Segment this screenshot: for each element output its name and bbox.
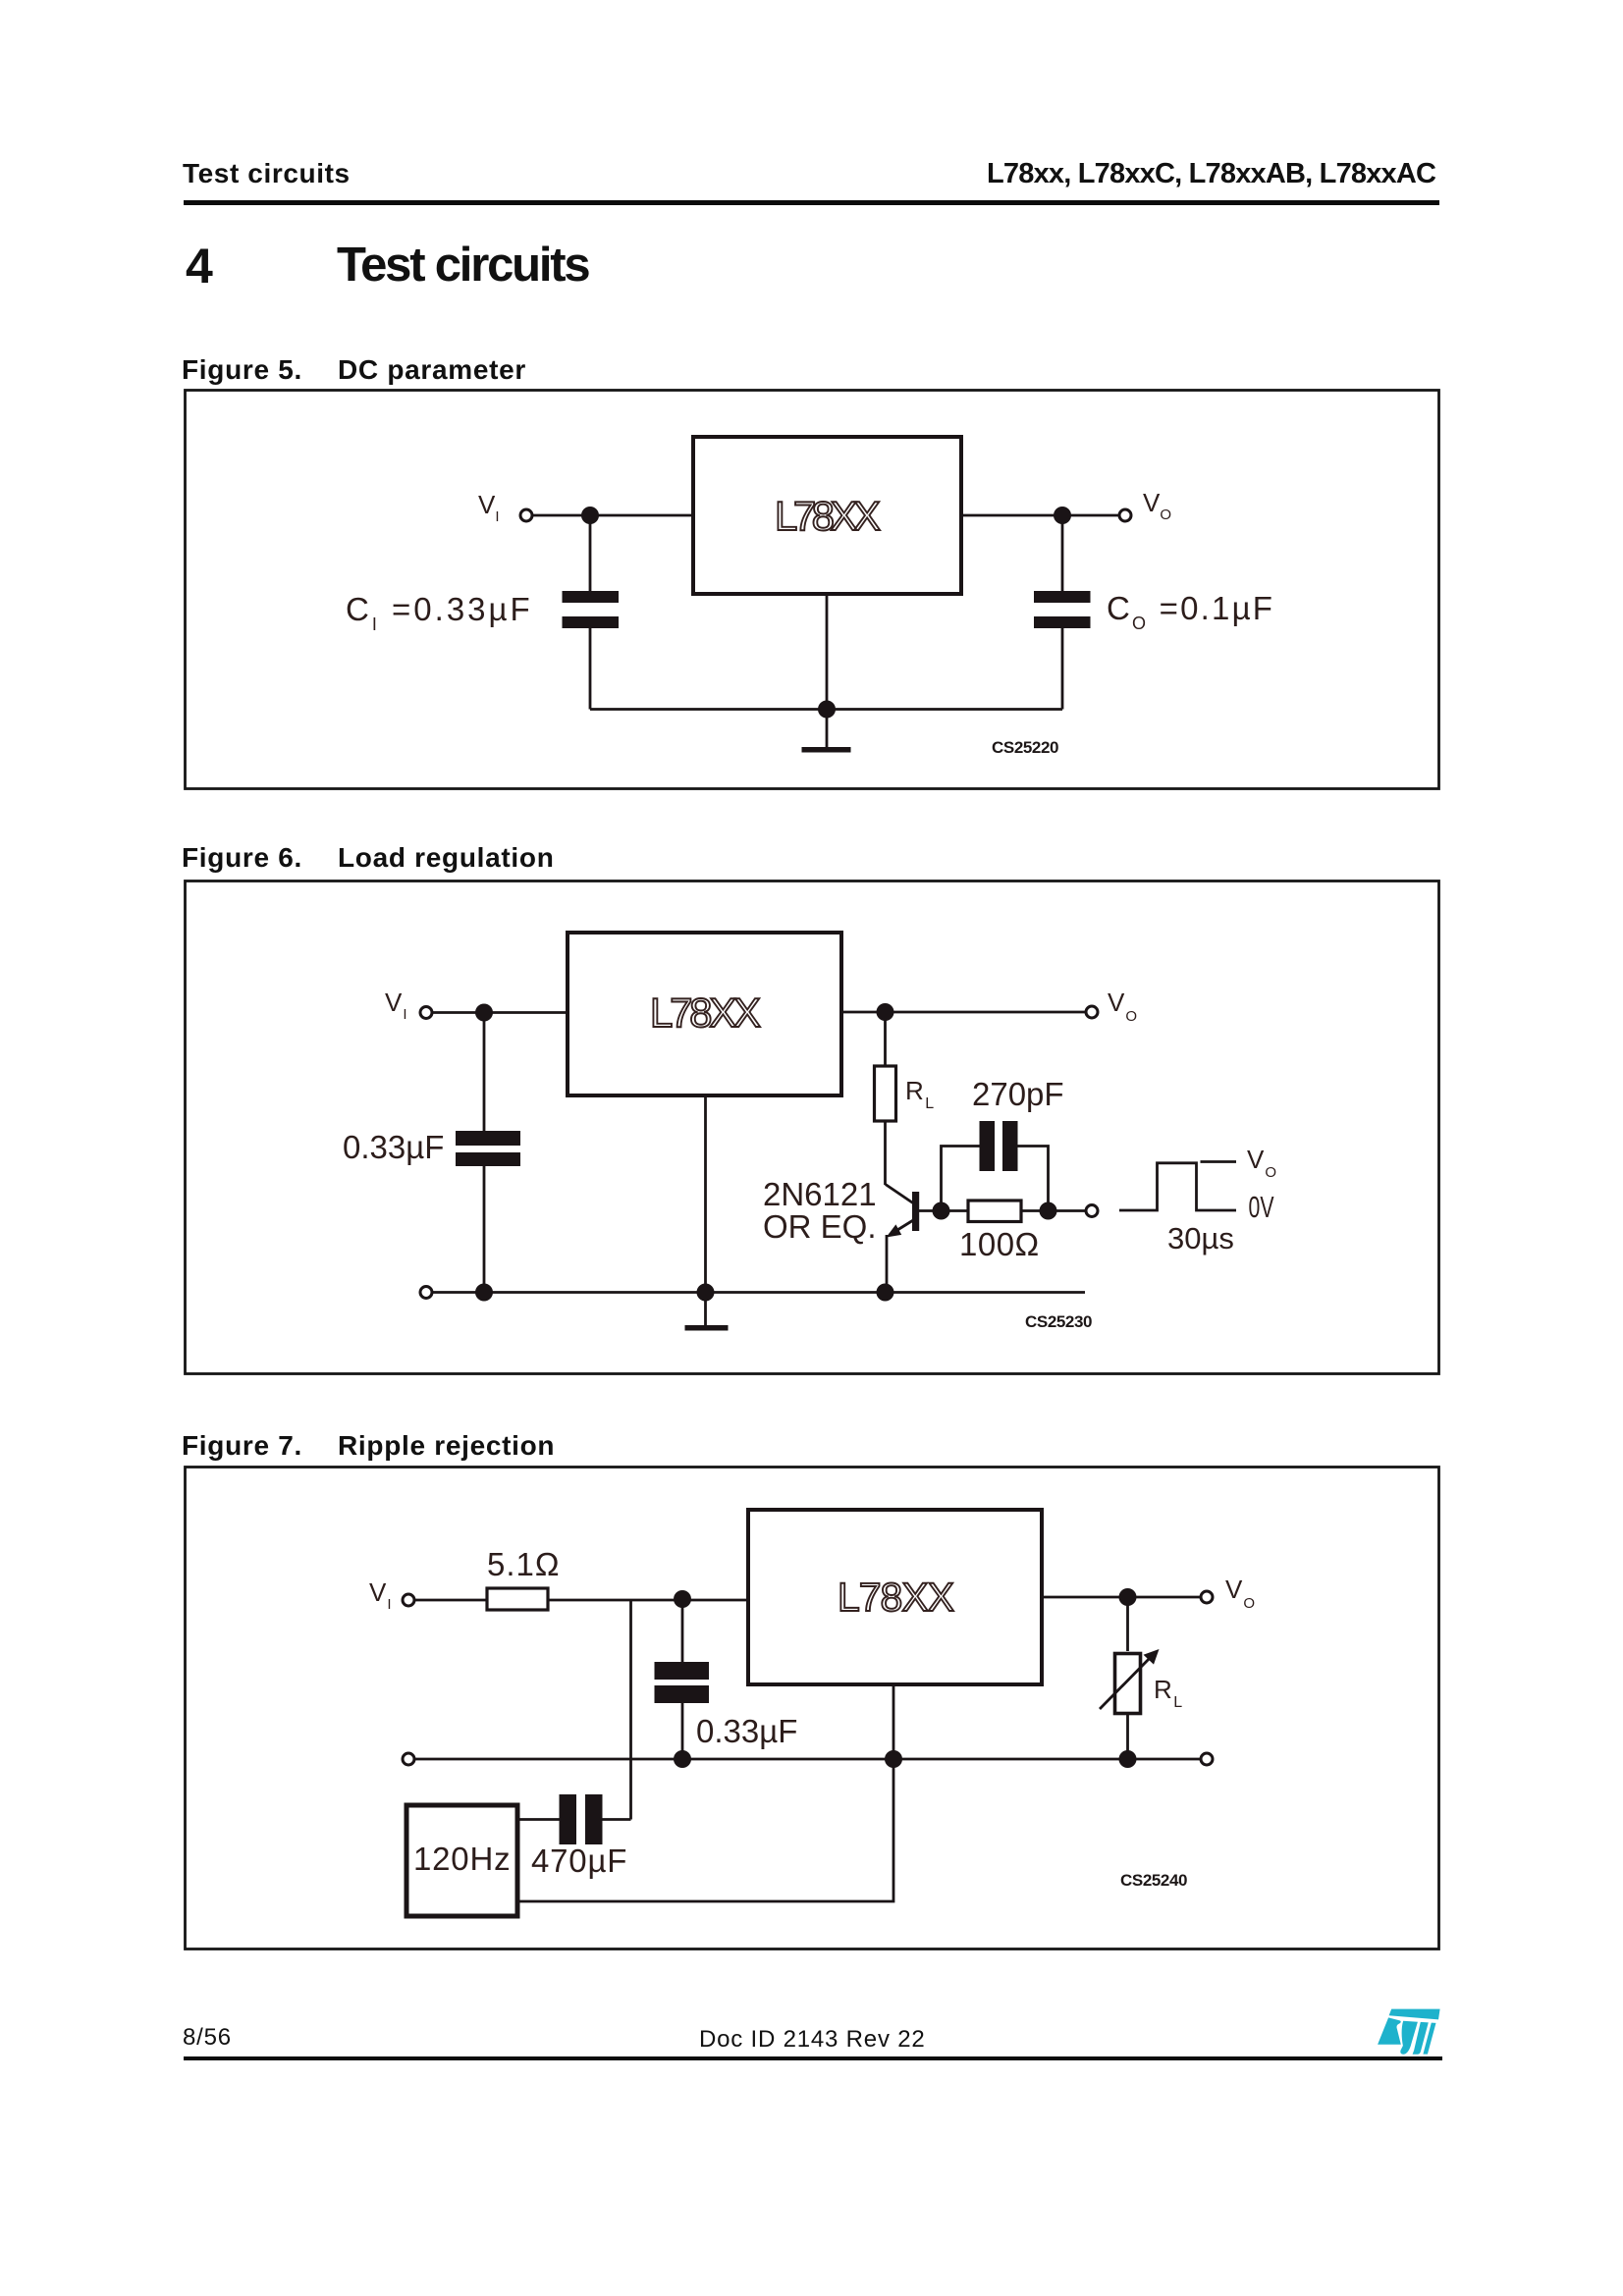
figure 7 frame	[186, 1468, 1439, 1949]
wire VI to U1	[533, 514, 693, 517]
ground rail wire	[590, 708, 1062, 711]
resistor R2 5.1ohm body	[487, 1588, 548, 1610]
wire node C up to C2	[942, 1147, 980, 1211]
svg-text:CS25240: CS25240	[1120, 1871, 1187, 1890]
resistor RL body	[1115, 1654, 1141, 1714]
junction node A	[581, 507, 599, 524]
ground symbol	[685, 1325, 729, 1331]
branch wire down to C2 470uF	[629, 1600, 632, 1820]
wire CI to ground rail	[589, 628, 592, 710]
wire RL to mid rail	[1126, 1714, 1129, 1760]
footer doc id	[699, 2026, 926, 2054]
bottom rail wire	[433, 1291, 1085, 1294]
regulator U1 box L78XX	[693, 437, 961, 594]
header right: part numbers	[987, 158, 1435, 190]
junction ground node	[818, 701, 836, 719]
wire Q1 emitter to bottom rail	[886, 1235, 889, 1293]
resistor RL body	[875, 1066, 896, 1121]
terminal VI	[420, 1007, 432, 1019]
terminal VI	[520, 509, 532, 521]
footer page number	[183, 2024, 232, 2052]
ground stem	[704, 1293, 707, 1327]
junction C1 bottom	[475, 1284, 493, 1302]
resistor R1 100ohm body	[968, 1201, 1021, 1222]
terminal VO	[1086, 1006, 1098, 1018]
header rule	[184, 200, 1439, 205]
wire 120Hz to C2	[517, 1818, 560, 1821]
svg-text:0.33µF: 0.33µF	[696, 1713, 797, 1749]
capacitor C1 plates	[456, 1131, 520, 1146]
junction C1 bottom	[674, 1750, 691, 1768]
wire node A down to CI	[589, 515, 592, 592]
figure 6 frame	[186, 881, 1439, 1374]
wire C1 down to mid rail	[681, 1703, 684, 1759]
junction emitter bottom	[877, 1284, 894, 1302]
regulator U1 box L78XX	[568, 933, 841, 1095]
ST logo	[1375, 2008, 1445, 2056]
transistor Q1 collector diagonal	[886, 1185, 914, 1204]
terminal VO	[1119, 509, 1131, 521]
terminal VI	[403, 1594, 414, 1606]
section heading	[186, 238, 213, 294]
terminal mid left	[403, 1753, 414, 1765]
wire 120Hz bottom to U1 ground	[517, 1684, 893, 1901]
capacitor CO plates	[1034, 591, 1091, 603]
waveform VO level line	[1201, 1160, 1237, 1163]
terminal mid right	[1201, 1753, 1213, 1765]
capacitor C2 470uF plates	[560, 1794, 577, 1844]
junction RL bottom	[1119, 1750, 1137, 1768]
junction node B	[1054, 507, 1071, 524]
wire VI to R2	[415, 1599, 487, 1602]
wire U1 ground pin down	[704, 1095, 707, 1293]
svg-text:L78XX: L78XX	[838, 1575, 954, 1620]
wire node A down to C1	[483, 1013, 486, 1133]
terminal pulse output	[1086, 1205, 1098, 1217]
figure 5 caption	[182, 354, 302, 386]
junction ground node	[697, 1284, 715, 1302]
transistor Q1 emitter diagonal	[890, 1220, 914, 1236]
wire C1 to bottom rail	[483, 1166, 486, 1293]
generator 120Hz box	[406, 1805, 517, 1916]
transistor Q1 base bar	[912, 1192, 919, 1231]
svg-text:470µF: 470µF	[531, 1842, 627, 1879]
resistor RL variable arrow	[1100, 1655, 1153, 1709]
mid rail wire	[415, 1758, 1200, 1761]
junction node D	[1040, 1202, 1057, 1220]
logo left body with S hook	[1378, 2017, 1401, 2044]
wire U1 out to VO	[841, 1011, 1085, 1014]
wire U1 out to VO	[1042, 1596, 1200, 1599]
header left: running title	[183, 158, 351, 189]
wire R1 to node D	[1021, 1209, 1085, 1212]
junction node A	[674, 1590, 691, 1608]
wire Q1 base to node C	[919, 1209, 968, 1212]
wire VI to U1	[433, 1011, 568, 1014]
svg-text:120Hz: 120Hz	[413, 1841, 511, 1877]
wire node B down to RL	[1126, 1597, 1129, 1651]
logo top bar	[1389, 2009, 1440, 2020]
footer rule	[184, 2056, 1442, 2060]
wire U1 ground pin down	[826, 594, 829, 710]
junction node B	[1119, 1588, 1137, 1606]
figure 6 caption	[182, 842, 302, 874]
capacitor C2 270pF plates	[980, 1121, 996, 1171]
capacitor C1 plates	[655, 1662, 710, 1680]
logo S body and foot	[1400, 2021, 1418, 2055]
figure 7 caption	[182, 1430, 302, 1462]
terminal VO	[1201, 1591, 1213, 1603]
wire node B down to CO	[1061, 515, 1064, 592]
ground symbol	[802, 747, 851, 753]
junction node A	[475, 1004, 493, 1022]
regulator U1 box L78XX	[748, 1510, 1042, 1684]
figure 5 frame	[186, 391, 1439, 789]
resistor RL arrowhead	[1144, 1649, 1160, 1665]
wire R2 to U1	[548, 1599, 748, 1602]
wire node A down to C1	[681, 1599, 684, 1663]
capacitor C2 wire right	[603, 1818, 631, 1821]
transistor Q1 emitter arrowhead	[887, 1224, 902, 1237]
wire RL to Q1 collector	[884, 1121, 887, 1185]
ground stem	[826, 710, 829, 749]
terminal bottom left	[420, 1287, 432, 1299]
junction node C base	[933, 1202, 950, 1220]
junction node B out	[877, 1003, 894, 1021]
logo T right descender	[1423, 2023, 1435, 2055]
wire CO to ground rail	[1061, 628, 1064, 710]
logo T left bar and stem	[1413, 2022, 1429, 2055]
capacitor CI plates	[563, 591, 620, 603]
junction U1 ground mid rail	[885, 1750, 902, 1768]
svg-text:5.1Ω: 5.1Ω	[487, 1546, 561, 1582]
wire node B down to RL	[884, 1012, 887, 1066]
wire U1 to VO	[961, 514, 1118, 517]
wire C2 down to node D	[1018, 1147, 1049, 1211]
waveform pulse	[1119, 1163, 1236, 1210]
